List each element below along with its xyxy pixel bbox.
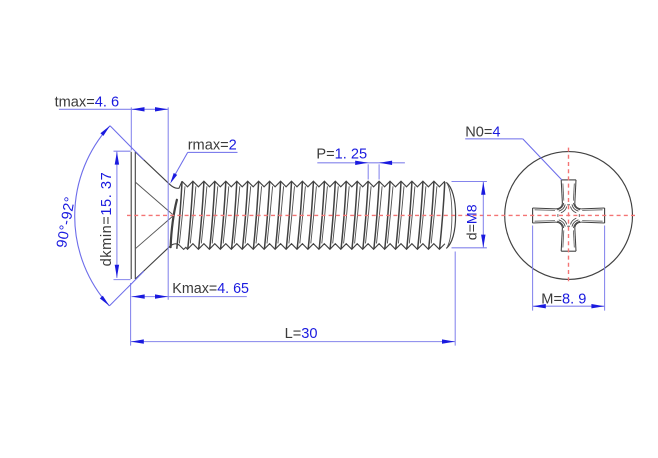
svg-text:M=8. 9: M=8. 9	[541, 291, 586, 307]
svg-text:L=30: L=30	[285, 326, 318, 342]
svg-text:P=1. 25: P=1. 25	[316, 146, 367, 162]
svg-text:tmax=4. 6: tmax=4. 6	[55, 94, 120, 110]
svg-text:d=M8: d=M8	[465, 204, 481, 240]
svg-text:N0=4: N0=4	[465, 124, 500, 140]
svg-text:Kmax=4. 65: Kmax=4. 65	[172, 281, 249, 297]
svg-text:dkmin=15. 37: dkmin=15. 37	[99, 172, 115, 267]
svg-text:rmax=2: rmax=2	[188, 138, 237, 154]
